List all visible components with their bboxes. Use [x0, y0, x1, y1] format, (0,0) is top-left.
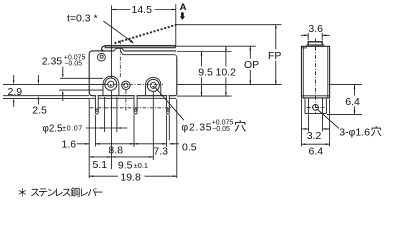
vertical ext hole1 right edge	[116, 97, 118, 132]
vertical ext body left	[88, 99, 90, 178]
svg-text:9.5: 9.5	[198, 67, 213, 79]
note: stainless steel lever (Japanese)	[19, 188, 103, 197]
svg-text:3.6: 3.6	[308, 23, 323, 35]
dotted lever free position	[115, 25, 177, 43]
svg-text:5.1: 5.1	[93, 159, 108, 171]
body bottom back ext left	[3, 97, 89, 99]
end body top step	[302, 47, 308, 49]
vertical ext hole1 left edge	[104, 97, 106, 132]
row A line: 1.6 / 8.8 / 7.3 / 0.5	[77, 143, 180, 145]
vertical ext terminal3 left	[166, 115, 168, 148]
OP / lever level ext line	[175, 45, 255, 47]
svg-text:6.4: 6.4	[345, 96, 360, 108]
plunger flange	[307, 45, 324, 46]
hole1 top ext line	[60, 77, 103, 79]
svg-text:0.5: 0.5	[182, 141, 197, 153]
kanji hole (phi2.35 label)	[235, 120, 246, 131]
hole1 bottom ext line	[59, 89, 103, 91]
svg-text:A: A	[180, 2, 187, 13]
terminal holes centerline	[90, 107, 172, 109]
vertical ext hole3 center	[152, 92, 154, 160]
vertical ext hole1 center lower	[111, 91, 113, 169]
end body bottom back line	[302, 95, 330, 97]
dim 9.5 vertical	[201, 52, 203, 97]
end view centerline	[315, 39, 317, 115]
terminal 1	[95, 95, 98, 114]
svg-text:1.6: 1.6	[62, 139, 77, 151]
leader phi2.35	[155, 87, 184, 121]
vertical ext terminal3 right	[168, 115, 170, 141]
svg-text:φ2.35: φ2.35	[181, 122, 212, 134]
end body inner verticals	[303, 46, 328, 98]
kanji hole (3-phi1.6 label)	[371, 126, 381, 136]
dim phi2.5 line	[86, 127, 128, 129]
6.4 dim line	[302, 143, 330, 145]
body bottom ext right	[177, 95, 232, 97]
dim 2.35 arrows	[62, 67, 64, 102]
svg-text:3-φ1.6: 3-φ1.6	[339, 127, 370, 139]
FP level line	[176, 24, 282, 26]
plunger bump	[114, 48, 124, 51]
row B line: 5.1 / 9.5±0.1	[89, 156, 153, 158]
ext line hole1 center vertical	[111, 6, 113, 79]
label OP	[244, 59, 260, 71]
lug around hole 1	[103, 76, 119, 95]
hole CL ext right	[177, 84, 282, 86]
label 10.2	[215, 67, 238, 79]
row C line: 19.8	[89, 175, 177, 177]
svg-text:φ2.5: φ2.5	[43, 124, 64, 135]
lug around hole 3	[146, 77, 161, 95]
hole 1	[105, 78, 117, 90]
svg-text:2.5: 2.5	[32, 105, 47, 117]
holes centerline dash-dot	[105, 84, 164, 86]
hole centerline ext left	[3, 84, 105, 86]
body back top edge	[120, 51, 177, 57]
svg-text:6.4: 6.4	[309, 146, 324, 158]
dim 2.9 arrows	[13, 75, 15, 107]
svg-text:FP: FP	[268, 50, 281, 62]
svg-text:t=0.3 *: t=0.3 *	[67, 13, 98, 25]
dim 2.5 arrows	[37, 75, 39, 105]
right 6.4 ext lines	[327, 85, 362, 115]
vertical ext body right	[176, 99, 178, 178]
vertical ext terminal2 left	[133, 115, 135, 148]
svg-text:8.8: 8.8	[108, 145, 123, 157]
svg-text:±0.07: ±0.07	[62, 123, 83, 132]
svg-text:10.2: 10.2	[216, 67, 237, 79]
body bottom front ext left	[3, 95, 89, 97]
dim FP vertical	[275, 25, 277, 85]
lever	[102, 46, 176, 51]
svg-text:±0.1: ±0.1	[134, 161, 149, 170]
svg-text:2.9: 2.9	[8, 86, 23, 98]
plunger centerline	[119, 40, 121, 78]
terminal foot	[305, 98, 326, 114]
leader t=0.3	[103, 21, 133, 44]
zero mark circle	[98, 53, 106, 61]
A arrow	[180, 12, 185, 20]
hole 2	[122, 81, 130, 89]
dim 14.5 line	[112, 9, 176, 11]
hole2 vertical centerline	[125, 90, 127, 112]
hole 3	[147, 79, 159, 91]
dim 3.6	[301, 33, 330, 41]
plunger pin	[308, 42, 322, 45]
label 9.5	[198, 67, 213, 79]
body back bottom edge	[89, 97, 176, 99]
hole crosshair horizontal	[307, 106, 325, 108]
terminal 3	[167, 95, 170, 114]
label right 6.4	[345, 96, 362, 108]
svg-text:2.35: 2.35	[42, 56, 63, 68]
label 14.5	[131, 4, 155, 16]
svg-text:7.3: 7.3	[153, 146, 168, 158]
dim OP vertical	[249, 46, 251, 84]
3.2 ext verticals	[309, 115, 323, 132]
lever hinge curl	[102, 46, 106, 51]
svg-text:−0.05: −0.05	[64, 61, 82, 68]
leader 3-phi1.6	[318, 110, 339, 129]
right 6.4 dim vertical	[354, 85, 356, 115]
svg-text:19.8: 19.8	[120, 172, 141, 184]
terminal 2	[134, 95, 137, 114]
dim 10.2 vertical	[225, 46, 227, 96]
3.2 dim line	[302, 128, 331, 130]
svg-text:9.5: 9.5	[118, 160, 133, 172]
body outline left view	[89, 51, 177, 96]
phi1.6 hole	[313, 105, 319, 111]
body top ext line	[177, 51, 232, 53]
vertical ext terminal1 left	[94, 115, 96, 147]
6.4 ext verticals	[302, 99, 330, 147]
end body outline	[302, 46, 330, 98]
svg-text:3.2: 3.2	[307, 130, 322, 142]
svg-text:OP: OP	[244, 59, 259, 71]
ext line lever tip vertical	[175, 4, 177, 46]
svg-text:14.5: 14.5	[132, 4, 153, 16]
svg-text:−0.05: −0.05	[212, 126, 230, 133]
label FP	[268, 50, 283, 62]
